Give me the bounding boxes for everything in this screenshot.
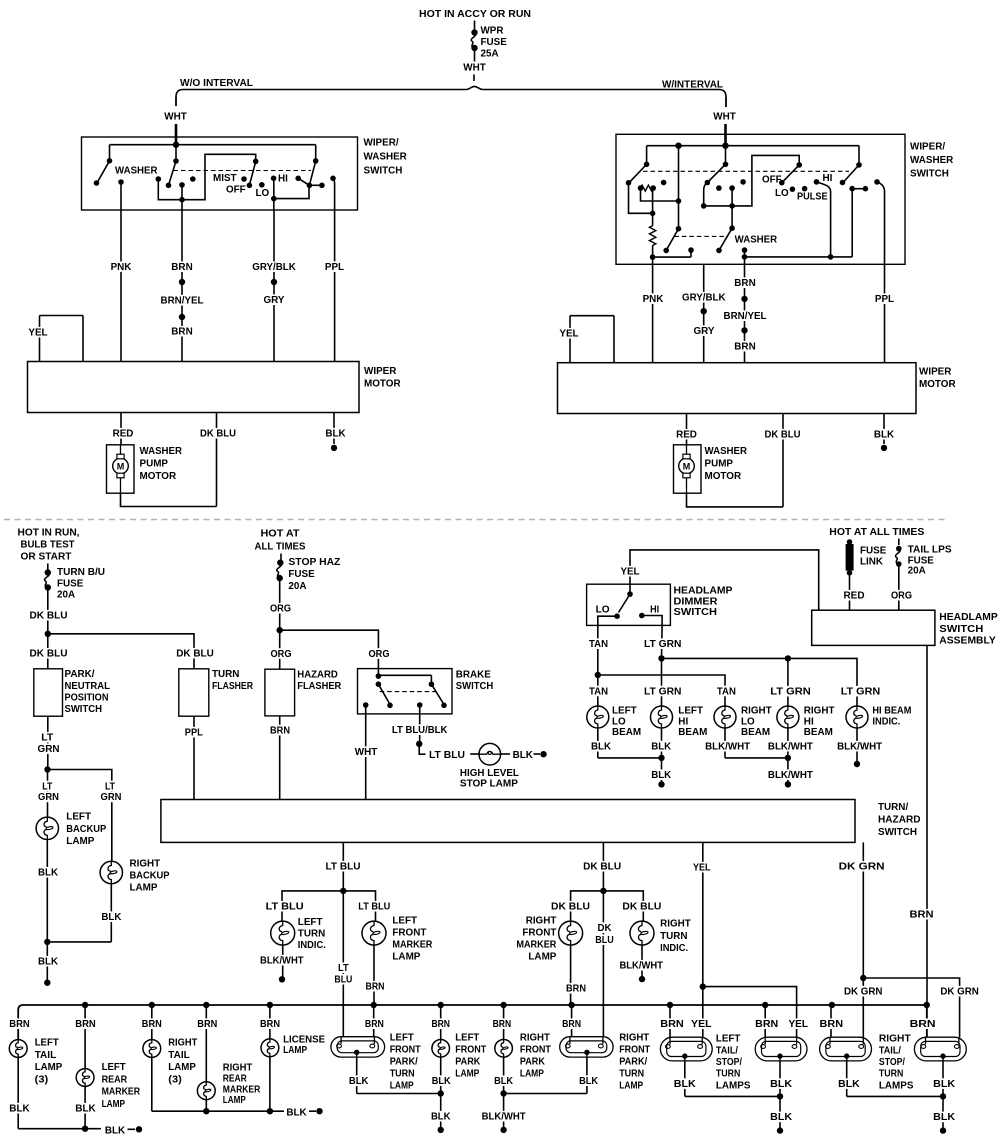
wire GRY/BLK exit <box>273 178 275 198</box>
svg-text:ALL TIMES: ALL TIMES <box>255 541 306 553</box>
svg-text:LT: LT <box>338 962 349 974</box>
turn flasher <box>179 669 209 716</box>
wire BLK/WHT ground <box>282 945 284 979</box>
svg-text:WHT: WHT <box>355 746 378 758</box>
svg-text:HAZARD: HAZARD <box>878 814 921 826</box>
switch OFF arm <box>782 165 799 183</box>
svg-text:BLK: BLK <box>933 1111 955 1123</box>
wire BRN right side down <box>926 645 928 1037</box>
node LT BLU/BLK contact <box>417 702 423 708</box>
svg-text:LEFT: LEFT <box>35 1037 60 1049</box>
wire BLK right tail <box>151 1057 153 1111</box>
wire bottom rail <box>745 256 853 258</box>
svg-text:BRN: BRN <box>734 277 755 289</box>
switch arm low <box>666 229 678 251</box>
separator dashed <box>4 519 946 521</box>
svg-text:DK: DK <box>598 922 612 934</box>
wire LT BLU tee <box>282 891 376 921</box>
svg-text:REAR: REAR <box>102 1073 128 1085</box>
wire BRN to bus right marker <box>570 945 572 1005</box>
svg-text:LT BLU: LT BLU <box>266 901 304 913</box>
wire bus W/O-W/INTERVAL split <box>176 86 726 97</box>
svg-text:WIPER/: WIPER/ <box>364 137 399 149</box>
node LO <box>614 613 620 619</box>
svg-text:BLK: BLK <box>591 741 611 753</box>
wire YEL jumper <box>40 315 84 317</box>
svg-text:FRONT: FRONT <box>392 927 427 939</box>
lamp high level stop <box>470 753 479 755</box>
node RED <box>842 590 866 601</box>
lamp right front park <box>495 1040 513 1058</box>
svg-text:TURN: TURN <box>298 928 325 940</box>
wire BLK right <box>883 414 885 445</box>
wire PPL below turn flasher <box>193 716 195 799</box>
washer pump motor left <box>107 445 135 493</box>
switch box turn/hazard <box>161 800 855 843</box>
node HI contact <box>814 179 820 185</box>
svg-text:DK BLU: DK BLU <box>551 901 590 913</box>
wire ground join <box>47 941 111 943</box>
svg-text:BRN: BRN <box>197 1018 217 1030</box>
wire YEL jumper right <box>570 315 614 317</box>
svg-text:RIGHT: RIGHT <box>168 1037 198 1049</box>
svg-text:STOP/: STOP/ <box>716 1056 742 1068</box>
svg-text:BLK: BLK <box>286 1107 307 1119</box>
resistor horizontal <box>638 185 644 191</box>
lamp left turn indicator <box>271 921 295 945</box>
svg-text:FRONT: FRONT <box>522 927 557 939</box>
svg-text:BRN: BRN <box>142 1018 162 1030</box>
svg-text:BRN: BRN <box>660 1018 684 1030</box>
svg-text:BRN/YEL: BRN/YEL <box>724 310 768 322</box>
svg-text:BRN: BRN <box>171 261 192 273</box>
svg-text:LO: LO <box>256 187 270 199</box>
fuse WPR FUSE 25A <box>471 29 477 35</box>
node ORG <box>269 603 293 614</box>
svg-text:WIPER: WIPER <box>919 366 952 378</box>
svg-text:HOT AT: HOT AT <box>261 528 301 540</box>
svg-text:BLK: BLK <box>513 749 534 761</box>
svg-text:OFF: OFF <box>226 183 246 195</box>
svg-text:SWITCH: SWITCH <box>878 826 917 838</box>
svg-text:TURN: TURN <box>212 668 239 680</box>
svg-text:DK BLU: DK BLU <box>200 428 236 440</box>
lamp hi beam indicator <box>846 706 868 728</box>
svg-text:BLK: BLK <box>674 1078 696 1090</box>
lamp left lo beam <box>587 706 609 728</box>
svg-text:BRN: BRN <box>734 341 755 353</box>
wire PNK <box>120 210 122 362</box>
svg-text:LAMPS: LAMPS <box>879 1080 914 1092</box>
node contacts mid <box>716 185 722 191</box>
node junction ORG <box>277 627 283 633</box>
wire hi beam indic ground <box>856 728 858 764</box>
node wire labels row2 <box>588 686 610 697</box>
svg-text:GRY: GRY <box>694 325 715 337</box>
wire DK GRN branch <box>863 978 959 1037</box>
wire DK BLU exit <box>602 842 604 891</box>
svg-text:LAMP: LAMP <box>392 951 420 963</box>
svg-text:SWITCH: SWITCH <box>939 623 983 635</box>
wire WHT to right switch <box>725 97 727 107</box>
wire up to contacts <box>851 189 853 257</box>
svg-text:WPR: WPR <box>481 25 504 37</box>
svg-text:BRN: BRN <box>493 1018 512 1030</box>
svg-text:YEL: YEL <box>788 1018 808 1030</box>
svg-text:WASHER: WASHER <box>705 445 748 457</box>
wire BLK A <box>684 1061 686 1097</box>
wire BLK left park/turn <box>356 1057 358 1093</box>
wire lamp drops <box>597 675 599 706</box>
svg-text:BLK: BLK <box>432 1075 451 1087</box>
svg-text:POSITION: POSITION <box>65 691 109 703</box>
svg-text:BLK: BLK <box>579 1075 598 1087</box>
wire BRN below hazard flasher <box>279 716 281 800</box>
svg-text:TURN: TURN <box>879 1068 904 1080</box>
wire DK BLU right <box>782 414 784 507</box>
svg-text:BLK/WHT: BLK/WHT <box>619 960 663 972</box>
svg-text:FRONT: FRONT <box>455 1044 486 1056</box>
svg-text:PARK/: PARK/ <box>390 1056 418 1068</box>
svg-text:BLK/WHT: BLK/WHT <box>768 769 814 781</box>
svg-text:LAMP: LAMP <box>223 1094 246 1106</box>
wire to resistor net <box>629 183 653 214</box>
lamp right tail/stop/turn D <box>914 1037 966 1061</box>
fuse STOP HAZ FUSE 20A <box>280 554 282 561</box>
svg-text:MOTOR: MOTOR <box>140 470 177 482</box>
svg-text:PARK: PARK <box>455 1056 480 1068</box>
svg-text:FRONT: FRONT <box>619 1044 650 1056</box>
svg-text:BRN: BRN <box>171 326 192 338</box>
svg-text:WIPER: WIPER <box>364 365 397 377</box>
node PPL contact <box>874 179 880 185</box>
node DK BLU <box>28 610 69 621</box>
switch box wiper/washer left <box>82 137 358 210</box>
svg-text:TAIL: TAIL <box>168 1049 190 1061</box>
wire PPL <box>334 210 336 362</box>
svg-text:TURN/: TURN/ <box>878 801 908 813</box>
wire YEL exit <box>702 842 704 986</box>
svg-text:LT BLU/BLK: LT BLU/BLK <box>392 724 448 736</box>
svg-text:BLK: BLK <box>651 769 671 781</box>
brake switch contacts <box>377 669 379 677</box>
svg-text:BRN: BRN <box>566 983 586 995</box>
wire DK BLU down center <box>602 891 604 1037</box>
svg-text:BLK: BLK <box>770 1078 792 1090</box>
svg-text:20A: 20A <box>288 580 306 592</box>
wire LT GRN distribution <box>658 655 664 661</box>
svg-text:FRONT: FRONT <box>390 1044 421 1056</box>
svg-text:BLK/WHT: BLK/WHT <box>260 955 304 967</box>
lamp left tail/stop/turn B <box>755 1037 807 1061</box>
svg-text:TURN: TURN <box>660 930 687 942</box>
switch box wiper/washer right <box>616 134 905 264</box>
svg-text:RIGHT: RIGHT <box>660 918 691 930</box>
switch park/neutral position <box>34 669 63 716</box>
svg-text:YEL: YEL <box>559 328 579 340</box>
node PNK contact <box>118 179 124 185</box>
lamp left front park <box>432 1040 450 1058</box>
lamp right front marker <box>559 921 583 945</box>
svg-text:LT GRN: LT GRN <box>841 686 881 698</box>
brake switch box <box>358 669 453 714</box>
lamp left hi beam <box>651 706 673 728</box>
svg-text:MARKER: MARKER <box>516 939 556 951</box>
svg-text:BLK: BLK <box>431 1111 451 1123</box>
svg-text:TURN: TURN <box>716 1068 741 1080</box>
wire GRY/BLK chain <box>273 210 275 362</box>
svg-text:YEL: YEL <box>28 327 48 339</box>
wire LT BLU exit <box>342 842 344 891</box>
wire dashed selector <box>174 170 312 172</box>
svg-text:BLK: BLK <box>101 911 121 923</box>
wire BLK D ground <box>942 1061 944 1131</box>
wire inner top line <box>647 145 859 147</box>
svg-text:PNK: PNK <box>643 293 664 305</box>
svg-text:LAMPS: LAMPS <box>716 1080 751 1092</box>
lamp license <box>261 1039 279 1057</box>
wire BLK C <box>846 1061 848 1097</box>
lamp right rear marker <box>197 1082 215 1100</box>
svg-text:DK GRN: DK GRN <box>839 861 885 873</box>
svg-text:BULB TEST: BULB TEST <box>21 539 76 551</box>
svg-text:PPL: PPL <box>875 293 895 305</box>
wire PPL exit <box>333 178 335 210</box>
svg-text:MOTOR: MOTOR <box>364 378 401 390</box>
svg-text:PULSE: PULSE <box>797 191 828 203</box>
svg-text:LEFT: LEFT <box>390 1032 415 1044</box>
svg-text:WASHER: WASHER <box>140 445 183 457</box>
svg-text:LAMP: LAMP <box>619 1080 643 1092</box>
node ORG <box>890 590 914 601</box>
node WHT contact <box>363 702 369 708</box>
wire down to hazard flasher <box>279 630 281 669</box>
svg-text:BRN: BRN <box>260 1018 280 1030</box>
wire pump loop right <box>687 493 784 507</box>
svg-text:BRN: BRN <box>910 1018 936 1030</box>
wire YEL branch <box>703 987 797 1038</box>
svg-text:RIGHT: RIGHT <box>520 1032 551 1044</box>
svg-text:DK GRN: DK GRN <box>940 986 979 998</box>
svg-text:HOT IN ACCY OR RUN: HOT IN ACCY OR RUN <box>419 8 531 20</box>
svg-text:BLK: BLK <box>651 741 671 753</box>
resistor vertical <box>652 188 654 226</box>
lamp left front park/turn <box>331 1037 385 1057</box>
svg-text:MARKER: MARKER <box>392 939 432 951</box>
svg-text:BEAM: BEAM <box>804 726 833 738</box>
svg-text:YEL: YEL <box>693 862 711 874</box>
lamp right turn indicator <box>630 921 654 945</box>
svg-text:GRY/BLK: GRY/BLK <box>682 292 726 304</box>
switch mist arm <box>253 159 259 165</box>
svg-text:TAIL: TAIL <box>35 1049 57 1061</box>
wire BRN exit <box>181 200 183 210</box>
svg-text:BRN: BRN <box>270 724 290 736</box>
svg-text:LAMP: LAMP <box>102 1098 126 1110</box>
wire LT GRN below park switch <box>47 716 49 769</box>
svg-text:GRN: GRN <box>38 791 59 803</box>
wire BLK left front park <box>440 1057 442 1130</box>
wire BLK B ground <box>779 1061 781 1131</box>
switch speed arm right <box>315 145 317 161</box>
svg-text:ORG: ORG <box>891 590 912 602</box>
svg-text:RIGHT: RIGHT <box>130 857 161 869</box>
svg-text:W/O INTERVAL: W/O INTERVAL <box>180 77 254 89</box>
wire branch right backup <box>48 770 112 862</box>
wire vertical 678.5 <box>678 146 680 229</box>
fuse link <box>847 539 853 545</box>
svg-text:INDIC.: INDIC. <box>298 939 326 951</box>
svg-text:WASHER: WASHER <box>735 234 778 246</box>
wire L to stop lamp <box>419 744 425 754</box>
svg-text:LAMP: LAMP <box>130 882 158 894</box>
svg-text:HOT AT ALL TIMES: HOT AT ALL TIMES <box>829 526 924 538</box>
wire RED <box>120 413 122 445</box>
svg-text:PARK/: PARK/ <box>619 1056 647 1068</box>
svg-text:BRN: BRN <box>755 1018 778 1030</box>
wire BLK/WHT grounds <box>724 728 726 758</box>
wire RED right <box>686 414 688 445</box>
svg-text:DK BLU: DK BLU <box>30 610 68 622</box>
svg-text:STOP/: STOP/ <box>879 1056 905 1068</box>
svg-text:BACKUP: BACKUP <box>130 870 170 882</box>
svg-text:RED: RED <box>113 428 134 440</box>
svg-text:LAMP: LAMP <box>520 1068 544 1080</box>
svg-text:FLASHER: FLASHER <box>212 680 253 692</box>
svg-text:PNK: PNK <box>111 261 132 273</box>
svg-text:HI: HI <box>278 173 288 185</box>
svg-text:LO: LO <box>775 187 789 199</box>
wire inner top line <box>110 144 316 146</box>
svg-text:LEFT: LEFT <box>455 1032 480 1044</box>
svg-text:20A: 20A <box>57 589 75 601</box>
svg-text:GRY/BLK: GRY/BLK <box>252 261 296 273</box>
svg-text:FRONT: FRONT <box>520 1044 551 1056</box>
svg-text:BRN: BRN <box>366 981 385 993</box>
wire DK BLU <box>216 413 218 507</box>
svg-text:LAMP: LAMP <box>283 1044 307 1056</box>
headlamp dimmer switch box <box>587 584 671 625</box>
wire BRN bus <box>18 1005 927 1040</box>
node WHT junction <box>173 142 179 148</box>
svg-text:BLK: BLK <box>75 1103 96 1115</box>
svg-text:INDIC.: INDIC. <box>660 942 688 954</box>
svg-text:BRN: BRN <box>820 1018 844 1030</box>
svg-text:BRAKE: BRAKE <box>456 669 491 681</box>
wire <box>473 75 475 82</box>
svg-text:BLU: BLU <box>334 974 352 986</box>
svg-text:DK GRN: DK GRN <box>844 986 883 998</box>
svg-text:PPL: PPL <box>325 261 345 273</box>
svg-text:TURN: TURN <box>619 1068 644 1080</box>
svg-text:RED: RED <box>844 590 865 602</box>
node junction <box>45 631 51 637</box>
svg-text:LT GRN: LT GRN <box>644 638 682 650</box>
svg-text:BRN: BRN <box>431 1018 450 1030</box>
svg-text:HAZARD: HAZARD <box>297 669 338 681</box>
wire BLK <box>333 413 335 445</box>
wire left backup drop <box>47 770 49 818</box>
wire PNK right <box>652 264 654 362</box>
wiper motor right <box>558 363 917 414</box>
svg-text:(3): (3) <box>168 1073 182 1085</box>
svg-text:PARK/: PARK/ <box>65 668 95 680</box>
svg-text:LT BLU: LT BLU <box>429 749 465 761</box>
svg-text:MOTOR: MOTOR <box>705 470 742 482</box>
svg-text:PUMP: PUMP <box>140 458 169 470</box>
wire YEL down <box>702 987 704 1038</box>
wire TAN distribution <box>595 672 601 678</box>
switch main arm WHT <box>725 146 727 165</box>
wire PPL right <box>884 264 886 362</box>
wire DK BLU tee <box>571 891 644 921</box>
svg-text:BLK: BLK <box>494 1075 513 1087</box>
lamp left backup <box>36 817 58 839</box>
svg-text:HOT IN RUN,: HOT IN RUN, <box>18 527 80 539</box>
svg-text:LINK: LINK <box>860 556 883 568</box>
wiper motor left <box>28 362 360 413</box>
svg-text:TAN: TAN <box>717 685 736 697</box>
svg-text:OR START: OR START <box>21 551 73 563</box>
wire ground rail left <box>18 1128 101 1130</box>
wire bus drops <box>84 1005 86 1069</box>
ground <box>44 980 50 986</box>
wire bracket to BRN <box>158 154 255 199</box>
svg-text:LEFT: LEFT <box>392 915 417 927</box>
wire TAN exit <box>598 616 617 625</box>
wire BLK marker <box>84 1086 86 1128</box>
svg-text:BLK: BLK <box>105 1124 126 1136</box>
svg-text:LEFT: LEFT <box>102 1061 127 1073</box>
wire BLK right front park <box>503 1057 505 1130</box>
lamp right backup <box>100 861 122 883</box>
svg-text:SWITCH: SWITCH <box>674 606 718 618</box>
svg-text:RED: RED <box>676 429 697 441</box>
lamp left tail/stop/turn A <box>660 1037 712 1061</box>
svg-text:(3): (3) <box>35 1073 49 1085</box>
svg-text:20A: 20A <box>908 565 926 577</box>
svg-text:LEFT: LEFT <box>298 916 323 928</box>
svg-text:BLK: BLK <box>349 1075 369 1087</box>
svg-text:RIGHT: RIGHT <box>526 915 557 927</box>
svg-text:WIPER/: WIPER/ <box>910 141 945 153</box>
svg-text:DK BLU: DK BLU <box>176 648 214 660</box>
svg-text:PARK: PARK <box>520 1056 545 1068</box>
wire dashed selector <box>643 170 849 172</box>
svg-text:HEADLAMP: HEADLAMP <box>939 611 998 623</box>
wire BLK right backup <box>110 884 112 942</box>
svg-text:LEFT: LEFT <box>716 1033 741 1045</box>
svg-text:BLK: BLK <box>9 1103 30 1115</box>
svg-text:BRN: BRN <box>562 1018 581 1030</box>
svg-text:FUSE: FUSE <box>288 568 314 580</box>
wire ladder to OFF arm <box>704 155 800 206</box>
lamp left rear marker <box>76 1069 94 1087</box>
wire BRN chain <box>181 210 183 362</box>
svg-text:DK BLU: DK BLU <box>622 901 661 913</box>
node contacts <box>156 176 162 182</box>
wire WHT to left switch <box>175 97 177 106</box>
svg-text:ORG: ORG <box>270 603 291 615</box>
wire BRN chain right <box>744 264 746 362</box>
svg-text:DK BLU: DK BLU <box>30 648 68 660</box>
wire LT BLU/BLK <box>419 714 421 744</box>
svg-text:TAN: TAN <box>589 685 608 697</box>
svg-text:LAMP: LAMP <box>168 1061 196 1073</box>
svg-text:FLASHER: FLASHER <box>297 680 341 692</box>
svg-text:LEFT: LEFT <box>66 811 91 823</box>
lamp right tail/stop/turn C <box>820 1037 872 1061</box>
